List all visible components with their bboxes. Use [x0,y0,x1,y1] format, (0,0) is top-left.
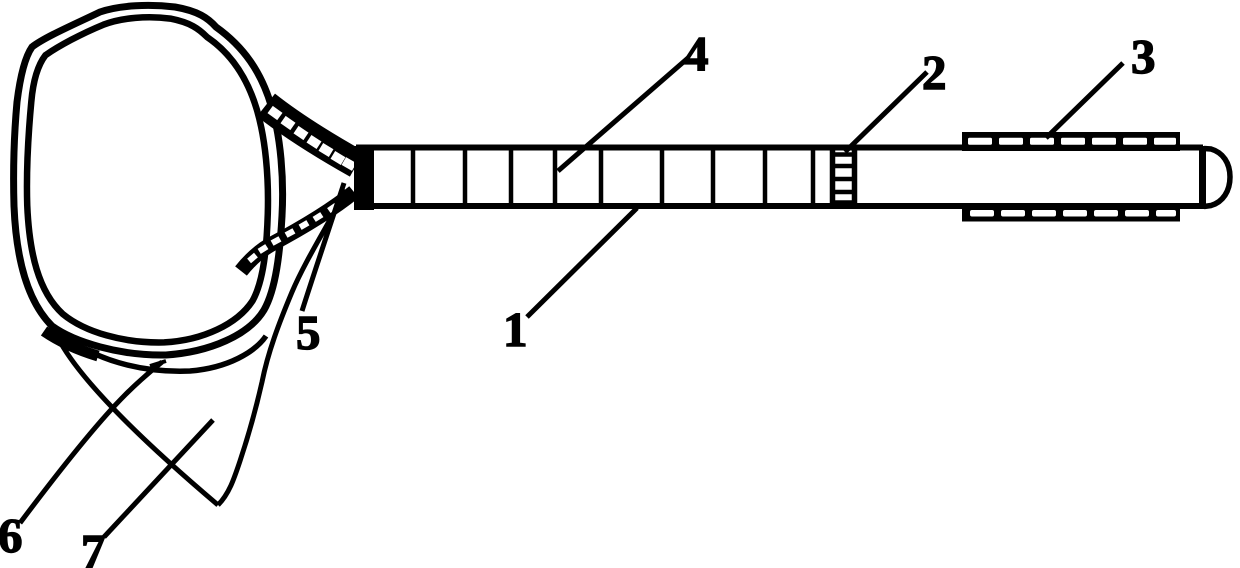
grip pad bottom band [962,206,1180,222]
shaft solid base block [354,146,374,210]
shaft segment divider 5 [599,150,604,206]
handle end vertical line [1199,146,1206,209]
shaft segment divider 3 [509,150,514,206]
connector ladder rungs [830,155,857,203]
label 4 [684,29,709,78]
net pouch right edge [218,190,346,505]
shaft segment divider 9 [811,150,816,206]
handle rounded cap [1204,149,1230,207]
net pouch left edge [58,338,218,505]
leader line 4 [558,58,688,171]
shaft segment divider 8 [763,150,768,206]
label 1 [503,305,528,354]
shaft body outline [356,148,1203,207]
net rim arc [58,332,266,371]
lower arm band hatch holes [247,203,338,263]
lower arm band [241,192,354,271]
grip pad bottom dash holes [970,210,1176,217]
ring outer oval [14,5,283,355]
leader line 6 [20,362,162,523]
connector ladder section right line [852,148,858,207]
label 7 [81,527,106,568]
shaft segment divider 4 [553,150,558,206]
net attachment dark wedge [44,331,98,356]
leader line 3 [1046,63,1123,138]
leader line 5 [302,183,344,311]
grip pad top band [962,132,1180,151]
label 5 [296,308,321,357]
shaft segment divider 1 [411,150,416,206]
shaft segment divider 2 [463,150,468,206]
leader line 2 [845,72,927,152]
upper arm band hatch holes [268,106,357,171]
leader line 6 arrow tick [150,361,166,366]
ring inner oval [27,17,268,342]
upper arm band [266,105,357,164]
connector ladder section left line [830,148,836,207]
label 3 [1131,32,1156,81]
label 6 [0,511,23,560]
label 2 [922,48,947,97]
shaft segment divider 6 [660,150,665,206]
grip pad top dash holes [968,138,1176,145]
leader line 1 [527,208,637,317]
shaft segment divider 7 [711,150,716,206]
leader line 7 [104,420,213,537]
